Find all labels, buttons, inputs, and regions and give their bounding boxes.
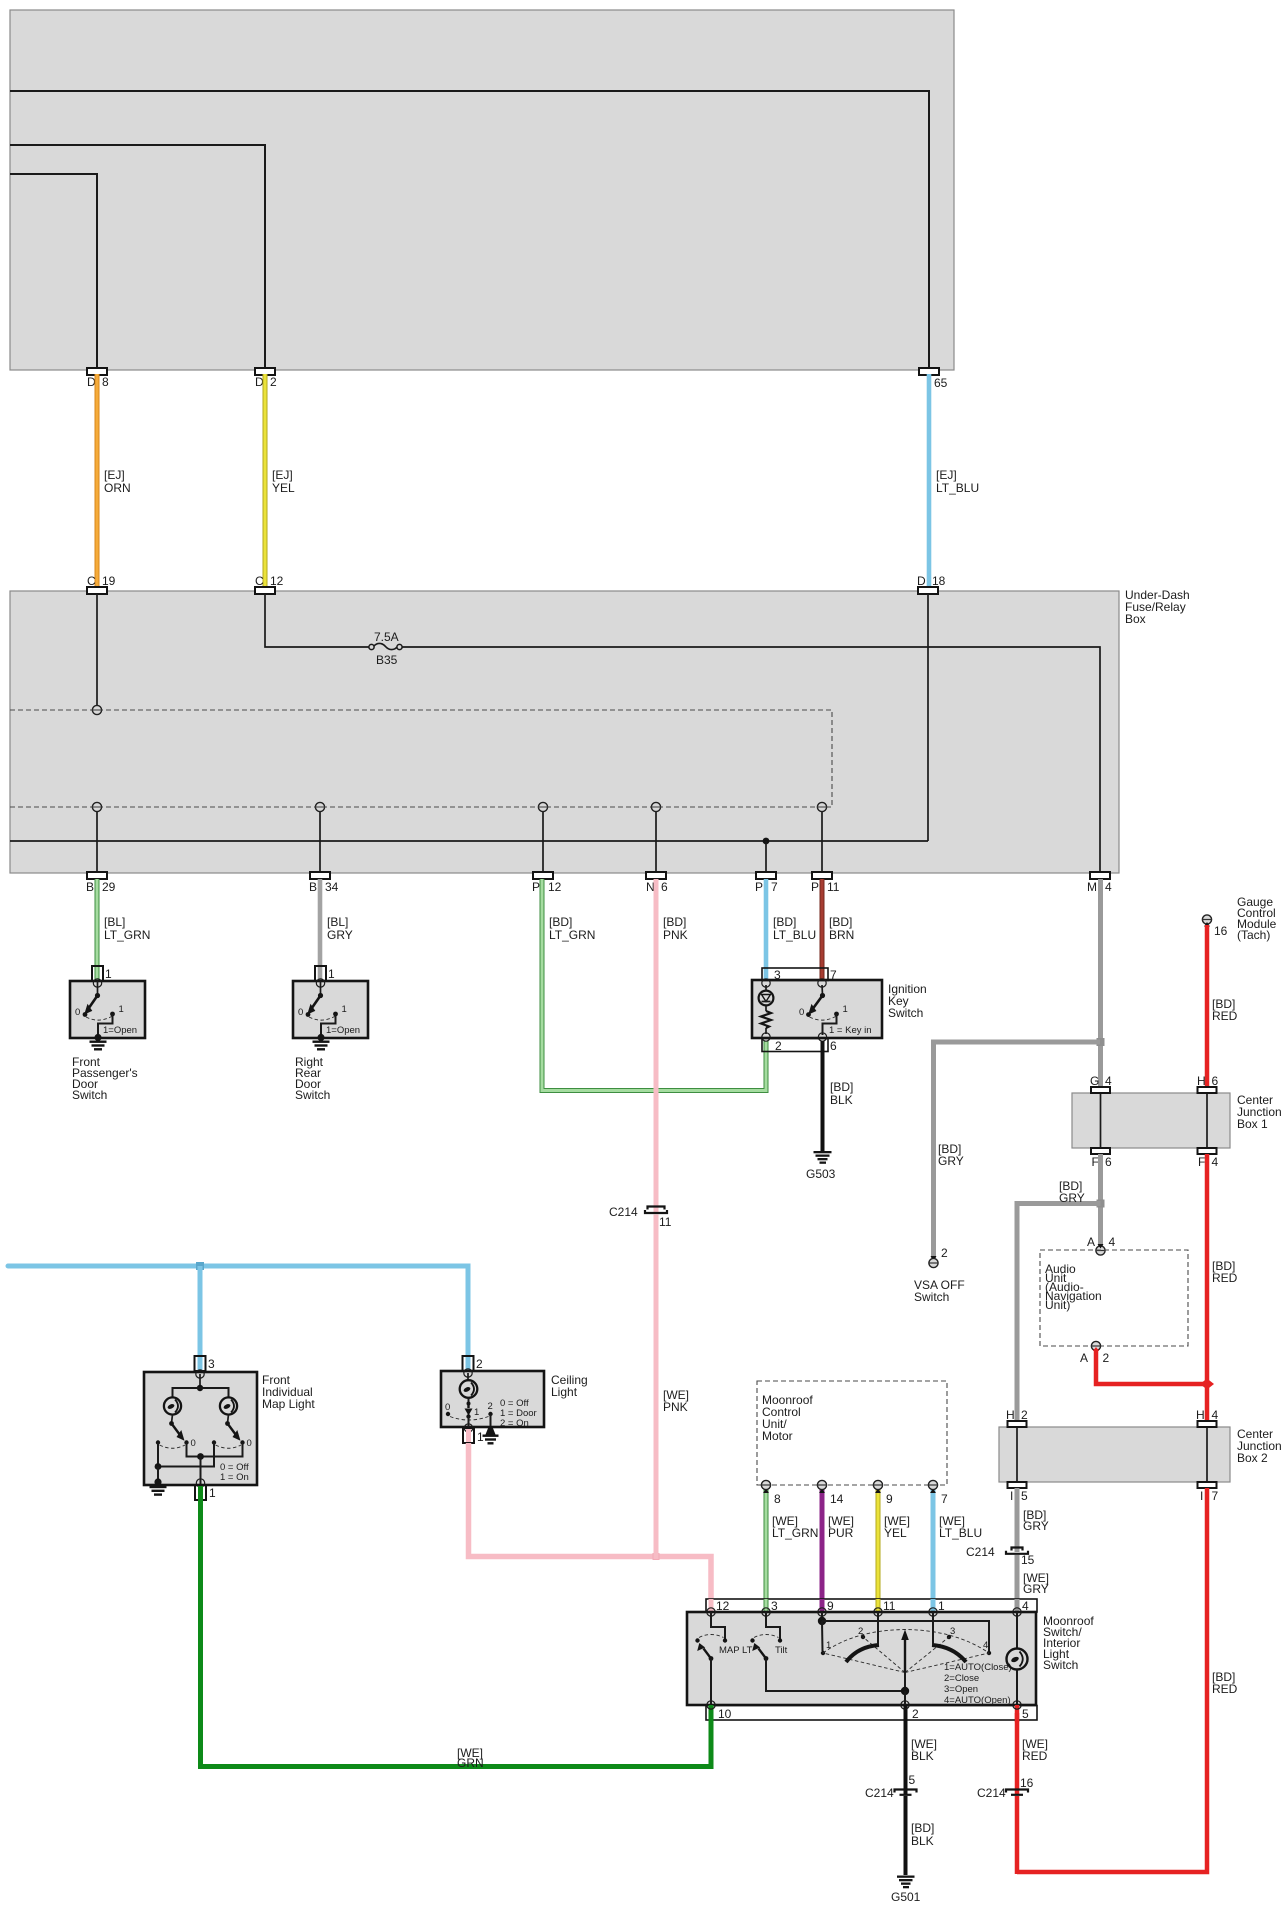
svg-text:LT_GRN: LT_GRN — [549, 928, 595, 942]
switch wire from pin — [97, 981, 99, 995]
pin 9 feed — [821, 1612, 823, 1620]
connector H6 — [1198, 1087, 1217, 1093]
ground — [90, 1041, 107, 1051]
svg-text:0: 0 — [799, 1007, 804, 1018]
wire: rail node to B29 — [96, 811, 98, 872]
internal link G4-F6 — [1100, 1093, 1102, 1148]
wire GRY branch to VSA OFF switch — [934, 1042, 1101, 1258]
junction arrow on red — [1200, 1379, 1214, 1390]
svg-text:7: 7 — [941, 1492, 948, 1506]
gauge control module (tach) pin 16 — [1202, 915, 1211, 924]
pin circle — [93, 979, 101, 987]
connector B34 — [310, 872, 330, 879]
svg-text:B: B — [86, 880, 94, 894]
svg-text:RED: RED — [1212, 1682, 1238, 1696]
svg-text:1: 1 — [105, 967, 112, 981]
junction dot map light branch — [196, 1262, 204, 1270]
left bulb — [164, 1397, 181, 1414]
svg-text:Switch: Switch — [914, 1290, 949, 1304]
svg-text:H: H — [1196, 1408, 1205, 1422]
svg-text:ORN: ORN — [104, 481, 131, 495]
connector P12 — [533, 872, 553, 879]
contact 0 — [446, 1412, 450, 1416]
svg-text:2: 2 — [1021, 1408, 1028, 1422]
wire: C19 to bus node — [96, 594, 98, 706]
wire 1-contacts to ground — [158, 1443, 214, 1467]
svg-text:2: 2 — [476, 1357, 483, 1371]
svg-text:8: 8 — [774, 1492, 781, 1506]
key switch wire from pin 7 — [821, 985, 824, 995]
svg-text:LT_GRN: LT_GRN — [104, 928, 150, 942]
selector arrow — [904, 1638, 906, 1673]
wire [WE] RED moonroof switch pin 5 to C214-16 — [1015, 1713, 1020, 1794]
svg-text:3=Open: 3=Open — [944, 1684, 978, 1695]
connector I5 — [1008, 1482, 1027, 1488]
svg-text:2: 2 — [941, 1246, 948, 1260]
svg-text:0: 0 — [298, 1007, 303, 1018]
arrow into VSA connector — [931, 1256, 937, 1261]
dashed selector fan — [823, 1630, 989, 1654]
contact 1 — [466, 1414, 470, 1418]
center junction box 1 — [1072, 1093, 1230, 1148]
connector C12 — [255, 587, 275, 594]
connector H2 — [1008, 1421, 1027, 1427]
switch wire from pin — [320, 981, 322, 995]
moonroof rotary switch — [818, 1612, 1012, 1706]
pin 3 box — [195, 1356, 206, 1371]
wire contact 1 to pin 6 — [823, 1014, 837, 1035]
svg-text:D: D — [917, 574, 926, 588]
switch arm — [813, 996, 823, 1009]
svg-text:2: 2 — [270, 375, 277, 389]
connector F4 — [1198, 1148, 1217, 1154]
audio unit pin A4 — [1096, 1246, 1105, 1255]
ceiling light — [441, 1356, 588, 1445]
svg-text:C: C — [87, 574, 96, 588]
ground G503 — [814, 1151, 832, 1164]
svg-text:H: H — [1197, 1074, 1206, 1088]
wire: rail node to P11 — [821, 811, 823, 872]
connector M4 — [1090, 872, 1110, 879]
contact 1 — [110, 1012, 115, 1017]
pin circles bottom edge — [707, 1701, 1021, 1709]
wire: rail node to P12 — [542, 811, 544, 872]
svg-text:GRY: GRY — [938, 1154, 964, 1168]
svg-text:5: 5 — [909, 1773, 916, 1787]
connector N6 — [646, 872, 666, 879]
svg-text:BLK: BLK — [911, 1749, 934, 1763]
svg-text:4: 4 — [1109, 1235, 1116, 1249]
svg-text:1: 1 — [843, 1004, 848, 1015]
svg-text:PNK: PNK — [663, 928, 688, 942]
svg-text:LT_GRN: LT_GRN — [772, 1526, 818, 1540]
svg-text:BRN: BRN — [829, 928, 854, 942]
left contact bar — [846, 1645, 879, 1662]
contact 1 — [834, 1012, 839, 1017]
internal link H6-F4 — [1206, 1093, 1208, 1148]
junction dot — [1097, 1200, 1105, 1208]
wire [BD] PNK N6 to C214 pin 11 — [654, 879, 659, 1212]
svg-text:Switch: Switch — [888, 1006, 923, 1020]
contact 1 — [333, 1012, 338, 1017]
pin 6 circle — [818, 1033, 826, 1041]
wire [WE] LT_BLU motor 7 to switch pin 1 — [931, 1489, 936, 1612]
wire [WE] PUR motor 14 to switch pin 9 — [820, 1489, 825, 1612]
svg-text:3: 3 — [208, 1357, 215, 1371]
svg-text:4: 4 — [1212, 1155, 1219, 1169]
svg-text:6: 6 — [830, 1039, 837, 1053]
svg-text:1: 1 — [119, 1004, 124, 1015]
dashed throw arc — [450, 1417, 489, 1421]
svg-text:2=Close: 2=Close — [944, 1673, 979, 1684]
svg-text:1=Open: 1=Open — [326, 1025, 360, 1036]
internal link H4-I7 — [1206, 1427, 1208, 1482]
svg-text:29: 29 — [102, 880, 116, 894]
svg-text:RED: RED — [1212, 1009, 1238, 1023]
svg-text:7.5A: 7.5A — [374, 630, 399, 644]
inline connector C214 pin 15 — [1006, 1548, 1028, 1554]
wire GRY branch to H2 — [1017, 1204, 1101, 1423]
motor pin 9 circle — [873, 1480, 882, 1489]
connector D8 — [87, 368, 107, 375]
svg-text:7: 7 — [1212, 1489, 1219, 1503]
under-dash fuse/relay box — [10, 591, 1119, 873]
wire [WE] YEL motor 9 to switch pin 11 — [876, 1489, 881, 1612]
wire [WE] PNK C214-11 down — [654, 1215, 659, 1560]
SECTION: ignition key switch — [752, 968, 927, 1053]
svg-text:[EJ]: [EJ] — [272, 468, 293, 482]
svg-text:YEL: YEL — [272, 481, 295, 495]
svg-text:C214: C214 — [865, 1786, 894, 1800]
node B29 — [92, 802, 101, 811]
wire [BD] RED F4 to H4 — [1205, 1154, 1210, 1422]
svg-text:Tilt: Tilt — [775, 1645, 788, 1656]
svg-text:[BL]: [BL] — [104, 915, 125, 929]
wire: rail node to N6 — [655, 811, 657, 872]
switch box — [293, 981, 368, 1038]
right contact bar — [932, 1645, 966, 1662]
svg-text:BLK: BLK — [830, 1093, 853, 1107]
svg-text:8: 8 — [102, 375, 109, 389]
svg-text:1: 1 — [477, 1430, 484, 1444]
svg-text:15: 15 — [1021, 1553, 1035, 1567]
pin 1 box — [196, 1479, 204, 1487]
pin 2 circle — [464, 1369, 472, 1377]
feed split — [199, 1374, 201, 1388]
wire [BD] BLK C214-5 to G501 — [904, 1796, 908, 1875]
dashed internal rail upper — [10, 710, 832, 807]
svg-text:LT_BLU: LT_BLU — [773, 928, 816, 942]
svg-text:I: I — [1010, 1489, 1013, 1503]
svg-text:BLK: BLK — [911, 1834, 934, 1848]
junction dot P7 — [763, 838, 770, 845]
ground G501 — [897, 1876, 915, 1889]
svg-text:1 = On: 1 = On — [220, 1472, 249, 1483]
moonroof switch bottom pin strip — [706, 1706, 1037, 1721]
contact 4 — [987, 1651, 991, 1655]
motor pin 14 circle — [817, 1480, 826, 1489]
svg-text:4=AUTO(Open): 4=AUTO(Open) — [944, 1695, 1011, 1706]
pin circles top edge — [707, 1608, 1021, 1616]
svg-text:GRY: GRY — [327, 928, 353, 942]
connector D18 — [918, 587, 938, 594]
dashed throw arc — [309, 1017, 335, 1021]
svg-text:YEL: YEL — [884, 1526, 907, 1540]
inline connector C214 pin 16 — [1006, 1790, 1028, 1795]
wire [WE] PNK ceiling pin1 / C214-11 to moonroof pin 12 — [469, 1443, 712, 1612]
svg-text:N: N — [646, 880, 655, 894]
node on upper rail (C19) — [92, 705, 101, 714]
wire: bus to P7 — [765, 841, 767, 872]
wire: C12 to fuse B35 — [265, 594, 369, 647]
svg-text:18: 18 — [932, 574, 946, 588]
svg-text:Box 2: Box 2 — [1237, 1451, 1268, 1465]
audio unit pin A2 — [1091, 1341, 1100, 1350]
connector B29 — [87, 872, 107, 879]
wire [BD] RED A2 to main red — [1096, 1349, 1205, 1384]
wire: rail node to B34 — [319, 811, 321, 872]
svg-text:0: 0 — [445, 1402, 450, 1413]
contact 0 — [306, 1012, 311, 1017]
svg-text:12: 12 — [548, 880, 562, 894]
svg-text:Box: Box — [1125, 612, 1146, 626]
svg-text:[BD]: [BD] — [830, 1080, 853, 1094]
svg-text:LT_BLU: LT_BLU — [936, 481, 979, 495]
junction dot M4 branch — [1097, 1038, 1105, 1046]
svg-text:65: 65 — [934, 376, 948, 390]
pivot dot — [318, 993, 323, 998]
interior light power relay box (top, unlabeled) — [10, 10, 954, 370]
svg-text:C214: C214 — [966, 1545, 995, 1559]
wire contact 1 to ground — [321, 1014, 336, 1036]
bottom pin strip (pins 2,6) — [762, 1039, 828, 1052]
MAP LT switch — [695, 1612, 752, 1705]
connector G4 — [1091, 1087, 1110, 1093]
svg-text:[BD]: [BD] — [829, 915, 852, 929]
wire: fuse B35 to M4 — [402, 647, 1100, 872]
pin 11 link — [877, 1612, 879, 1645]
svg-text:PUR: PUR — [828, 1526, 854, 1540]
svg-text:A: A — [1080, 1351, 1088, 1365]
svg-text:GRN: GRN — [457, 1756, 484, 1770]
svg-text:B35: B35 — [376, 653, 398, 667]
moonroof switch top pin strip — [706, 1599, 1037, 1612]
svg-text:GRY: GRY — [1023, 1582, 1049, 1596]
svg-text:4: 4 — [1105, 1074, 1112, 1088]
wire GRY M4 down to junction — [1098, 879, 1103, 1088]
wire [BD] BRN P11 to ignition key switch pin 7 — [820, 879, 825, 979]
svg-text:RED: RED — [1212, 1271, 1238, 1285]
svg-text:Unit): Unit) — [1045, 1298, 1070, 1312]
svg-text:9: 9 — [886, 1492, 893, 1506]
connector H4 — [1198, 1421, 1217, 1427]
Tilt switch — [750, 1612, 903, 1691]
svg-text:Map Light: Map Light — [262, 1397, 315, 1411]
svg-text:RED: RED — [1022, 1749, 1048, 1763]
svg-text:G503: G503 — [806, 1167, 836, 1181]
inline connector C214 pin 5 — [895, 1790, 917, 1795]
svg-text:11: 11 — [659, 1215, 672, 1229]
switch arm — [89, 996, 98, 1009]
svg-text:F: F — [1198, 1155, 1205, 1169]
wire: D18 to internal bus — [927, 594, 929, 841]
connector P11 — [812, 872, 832, 879]
pin 3 circle — [762, 979, 770, 987]
svg-text:MAP LT: MAP LT — [719, 1645, 753, 1656]
dashed throw arc — [810, 1017, 836, 1021]
pin circle — [316, 979, 324, 987]
wire [BD] GRY I5 to C214-15 — [1015, 1488, 1020, 1552]
svg-text:Box 1: Box 1 — [1237, 1117, 1268, 1131]
svg-text:2 = On: 2 = On — [500, 1418, 529, 1429]
svg-text:P: P — [755, 880, 763, 894]
front passenger's door switch — [70, 966, 145, 1102]
svg-text:16: 16 — [1020, 1776, 1034, 1790]
svg-text:Motor: Motor — [762, 1429, 793, 1443]
wire contact 2 to ground — [490, 1414, 492, 1426]
motor pin 8 circle — [761, 1480, 770, 1489]
connector 65 — [919, 368, 939, 375]
wire contact 1 to pin 1 — [468, 1417, 470, 1428]
svg-text:11: 11 — [827, 880, 840, 894]
wire [EJ] LT_BLU from 65 to D18 — [927, 374, 932, 587]
svg-text:2: 2 — [858, 1626, 863, 1637]
svg-text:[BD]: [BD] — [773, 915, 796, 929]
ground dot — [317, 1034, 324, 1041]
node P12 — [538, 802, 547, 811]
wire [WE] GRN map light pin 1 to moonroof pin 10 — [201, 1486, 712, 1767]
svg-text:6: 6 — [661, 880, 668, 894]
svg-text:14: 14 — [830, 1492, 844, 1506]
svg-text:1=Open: 1=Open — [103, 1025, 137, 1036]
wire [BD] RED I7 down and across — [1017, 1488, 1207, 1872]
svg-text:Switch: Switch — [72, 1088, 107, 1102]
pivot dot — [95, 993, 100, 998]
svg-text:10: 10 — [718, 1707, 732, 1721]
svg-text:2: 2 — [488, 1401, 493, 1412]
contact 3 — [947, 1635, 951, 1639]
svg-text:[BD]: [BD] — [549, 915, 572, 929]
wire LT_BLU to map light pin 3 — [198, 1266, 203, 1372]
moonroof control unit/motor dashed box — [757, 1381, 947, 1485]
svg-text:[EJ]: [EJ] — [936, 468, 957, 482]
svg-text:34: 34 — [325, 880, 339, 894]
connector F6 — [1091, 1148, 1110, 1154]
ceiling light box — [441, 1371, 544, 1427]
front individual map light — [144, 1356, 315, 1500]
svg-text:LT_BLU: LT_BLU — [939, 1526, 982, 1540]
wire [BL] LT_GRN B29 to front passenger door switch — [95, 879, 100, 981]
connector D2 — [255, 368, 275, 375]
svg-text:1: 1 — [474, 1407, 479, 1418]
svg-text:2: 2 — [912, 1707, 919, 1721]
svg-text:5: 5 — [1022, 1707, 1029, 1721]
right bulb — [220, 1397, 237, 1414]
center junction box 2 — [999, 1427, 1230, 1482]
node P11 — [817, 802, 826, 811]
svg-text:F: F — [1092, 1155, 1099, 1169]
node B34 — [315, 802, 324, 811]
svg-text:Switch: Switch — [295, 1088, 330, 1102]
inline connector C214 pin 11 — [645, 1207, 667, 1214]
wire [EJ] ORN from D8 to C19 — [95, 374, 100, 587]
pin 1 link — [932, 1612, 934, 1645]
svg-text:[BD]: [BD] — [663, 915, 686, 929]
switch box — [70, 981, 145, 1038]
svg-text:1: 1 — [342, 1004, 347, 1015]
moonroof switch / interior light switch box — [687, 1612, 1036, 1705]
svg-text:C: C — [255, 574, 264, 588]
svg-text:PNK: PNK — [663, 1400, 688, 1414]
wire: relay box internal feed to connector D8 — [10, 174, 97, 367]
svg-text:4: 4 — [1212, 1408, 1219, 1422]
svg-text:C214: C214 — [977, 1786, 1006, 1800]
svg-text:1: 1 — [209, 1486, 216, 1500]
wire [BL] GRY B34 to right rear door switch — [318, 879, 323, 981]
wire [BD] LT_BLU P7 to ignition key switch pin 3 — [764, 879, 769, 979]
svg-text:B: B — [309, 880, 317, 894]
internal link H2-I5 — [1016, 1427, 1018, 1482]
node N6 — [651, 802, 660, 811]
svg-text:6: 6 — [1212, 1074, 1219, 1088]
left bulb switch — [172, 1415, 173, 1424]
svg-text:(Tach): (Tach) — [1237, 928, 1270, 942]
wire [WE] BLK switch pin 2 to C214-5 — [904, 1720, 908, 1794]
internal bus line D18 to P7 — [10, 840, 928, 842]
svg-text:6: 6 — [1105, 1155, 1112, 1169]
contact 1 — [821, 1651, 825, 1655]
svg-text:7: 7 — [830, 968, 837, 982]
wire: relay box internal feed to connector 65 — [10, 91, 929, 367]
pivot dot — [820, 993, 825, 998]
wire LT_BLU ceiling feed horizontal — [8, 1266, 468, 1371]
selector arm — [468, 1398, 470, 1404]
pin 1 box — [315, 966, 326, 981]
resistor — [765, 1006, 767, 1012]
wire GRY F6 down to A4 — [1098, 1154, 1103, 1246]
wire contact 1 to ground — [98, 1014, 113, 1036]
wires through bottom strip — [709, 1705, 714, 1722]
pin 1 box — [464, 1424, 472, 1432]
wire [BD] LT_GRN P12 to ignition key switch pin 2 — [542, 879, 766, 1091]
svg-text:1 = Key in: 1 = Key in — [829, 1025, 872, 1036]
svg-text:16: 16 — [1214, 924, 1228, 938]
right bulb switch — [228, 1415, 229, 1424]
svg-text:[BD]: [BD] — [911, 1821, 934, 1835]
svg-text:P: P — [811, 880, 819, 894]
svg-text:2: 2 — [775, 1039, 782, 1053]
pin 2 circle — [762, 1033, 770, 1041]
dashed internal rail lower — [10, 806, 832, 808]
svg-text:G: G — [1090, 1074, 1099, 1088]
pin 1 box — [92, 966, 103, 981]
motor pin 7 circle — [928, 1480, 937, 1489]
right rear door switch — [293, 966, 368, 1102]
wire [BD] BLK pin 6 to G503 — [821, 1041, 825, 1151]
svg-text:GRY: GRY — [1023, 1519, 1049, 1533]
svg-text:[BL]: [BL] — [327, 915, 348, 929]
ignition key switch box — [752, 980, 882, 1038]
connector P7 — [756, 872, 776, 879]
svg-text:7: 7 — [771, 880, 778, 894]
ground — [150, 1486, 167, 1496]
ground — [483, 1427, 499, 1445]
svg-text:I: I — [1200, 1489, 1203, 1503]
svg-text:19: 19 — [102, 574, 116, 588]
svg-text:12: 12 — [270, 574, 284, 588]
svg-text:P: P — [532, 880, 540, 894]
switch arm — [312, 996, 321, 1009]
